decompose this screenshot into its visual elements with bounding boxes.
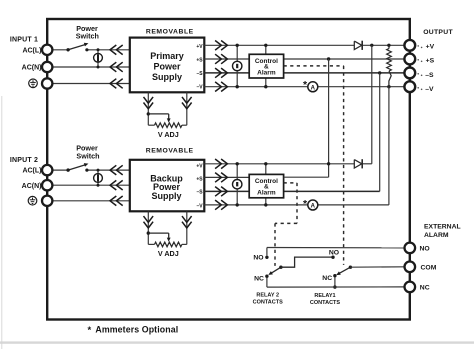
wire +S primary row <box>204 58 405 60</box>
label NC relay 2 <box>254 275 264 282</box>
svg-text:Supply: Supply <box>152 72 182 82</box>
dashed control line U4 to relay 2 <box>275 183 297 266</box>
wire switch to backup supply <box>87 169 130 171</box>
wire +V primary row <box>204 44 405 46</box>
terminal AC(L) input 2 <box>42 165 52 175</box>
connector chevrons primary +S <box>215 54 227 64</box>
svg-text:NC: NC <box>322 275 332 282</box>
indicator lamp DS1 <box>94 53 103 62</box>
svg-text:Alarm: Alarm <box>257 190 276 197</box>
label NC terminal <box>420 285 430 292</box>
label REMOVABLE primary <box>146 29 194 36</box>
svg-text:REMOVABLE: REMOVABLE <box>146 148 194 155</box>
wire V ADJ left lead primary <box>147 92 149 125</box>
svg-text:Switch: Switch <box>76 151 99 160</box>
outer enclosure border <box>47 19 410 320</box>
wire AC(N) input 1 to primary supply <box>51 66 130 68</box>
svg-text:AC(L): AC(L) <box>22 168 41 175</box>
svg-text:NC: NC <box>420 285 430 292</box>
voltmeter M1 <box>233 61 242 70</box>
label INPUT 1 <box>10 37 38 44</box>
label AC(N) input 2 <box>22 183 42 190</box>
indicator lamp DS2 branch <box>97 169 100 187</box>
control & alarm U4 box <box>249 174 283 197</box>
wire V ADJ right lead backup <box>186 211 188 244</box>
wire V ADJ right lead primary <box>186 92 188 125</box>
svg-text:V ADJ: V ADJ <box>158 249 179 258</box>
svg-text:+V: +V <box>196 44 203 50</box>
connector chevrons V ADJ primary <box>144 97 192 109</box>
label EXTERNAL ALARM <box>424 224 461 239</box>
pin label -V primary <box>196 85 203 91</box>
svg-text:–S: –S <box>196 190 203 196</box>
earth ground symbol input 2 <box>28 196 37 205</box>
label REMOVABLE backup <box>146 148 194 155</box>
diode D2 <box>354 159 362 168</box>
wire switch to primary supply <box>87 49 130 51</box>
terminal -S output <box>404 68 415 79</box>
voltmeter M2 branch <box>236 162 239 206</box>
svg-text:INPUT 2: INPUT 2 <box>10 157 38 164</box>
potentiometer VR2 <box>148 242 187 247</box>
voltmeter M1 branch <box>236 44 239 89</box>
wire -S primary row <box>204 72 405 74</box>
potentiometer VR1 wiper <box>147 112 171 122</box>
wire -S backup row <box>204 190 379 192</box>
connector chevrons primary +V <box>215 41 227 51</box>
label NC relay 1 <box>322 275 332 282</box>
label AC(L) input 2 <box>22 168 41 175</box>
power switch S1 <box>66 43 88 52</box>
svg-text:–V: –V <box>196 204 203 210</box>
connector chevrons primary -S <box>215 68 227 78</box>
relay 2 NC contact <box>265 275 268 288</box>
leader dots output -S <box>417 73 422 76</box>
label AC(N) input 1 <box>22 65 42 72</box>
wire -V backup row <box>204 204 389 206</box>
label RELAY1 CONTACTS <box>310 293 340 306</box>
relay 2 NO contact <box>265 256 268 259</box>
backup power supply U2 text <box>150 173 183 201</box>
node +V/backup join <box>370 44 373 47</box>
diode D1 <box>354 41 362 50</box>
leader dots output +S <box>417 59 422 62</box>
terminal AC(N) input 2 <box>42 180 52 190</box>
control alarm U3 branch top <box>264 44 267 55</box>
label INPUT 2 <box>10 157 38 164</box>
svg-text:–V: –V <box>196 85 203 91</box>
indicator lamp DS2 <box>94 174 103 183</box>
terminal COM external alarm <box>405 262 416 273</box>
label RELAY 2 CONTACTS <box>253 293 283 306</box>
label NO relay 1 <box>329 249 339 256</box>
connector chevrons input 1 AC(L) <box>110 45 123 55</box>
label AC(L) input 1 <box>22 47 41 54</box>
svg-text:Power: Power <box>153 62 181 72</box>
connector chevrons input 2 AC(N) <box>110 180 123 190</box>
scan artifact left gray line <box>1 96 2 349</box>
svg-text:CONTACTS: CONTACTS <box>253 300 283 306</box>
leader dots output +V <box>417 45 422 48</box>
indicator lamp DS1 branch <box>97 48 100 68</box>
svg-text:Ammeters Optional: Ammeters Optional <box>95 324 178 334</box>
terminal GND input 1 <box>42 78 52 88</box>
svg-text:–S: –S <box>196 71 203 77</box>
control & alarm U3 box <box>249 54 283 78</box>
svg-text:INPUT 1: INPUT 1 <box>10 37 38 44</box>
svg-text:V ADJ: V ADJ <box>158 130 179 139</box>
scan artifact bottom gray band <box>0 341 474 343</box>
connector chevrons backup +S <box>215 173 227 183</box>
relay 1 NO contact <box>331 256 334 259</box>
connector chevrons primary -V <box>215 82 227 92</box>
wire relay bottom rail to NC terminal <box>267 286 406 288</box>
svg-text:NO: NO <box>329 249 339 256</box>
node +S/cross join <box>327 57 330 60</box>
svg-text:+V: +V <box>196 164 203 170</box>
svg-text:A: A <box>311 204 316 210</box>
connector chevrons input 2 GND <box>110 196 123 206</box>
label Power Switch input 1 <box>76 24 99 41</box>
wire backup -S to output -S <box>379 73 381 191</box>
svg-text:CONTACTS: CONTACTS <box>310 300 340 306</box>
wire AC(L) input 1 to switch <box>51 49 68 51</box>
relay 1 NC contact <box>333 274 336 289</box>
wire AC(N) input 2 to backup supply <box>51 184 130 186</box>
wire +V backup row <box>204 163 371 165</box>
svg-text:NO: NO <box>420 246 430 253</box>
pin label -S primary <box>196 71 203 77</box>
svg-text:+S: +S <box>196 176 203 182</box>
control & alarm U4 text <box>255 178 278 196</box>
wire GND input 1 to primary supply <box>51 83 130 85</box>
svg-text:ALARM: ALARM <box>424 232 449 239</box>
terminal +V output <box>404 40 415 51</box>
control alarm U4 branch top <box>264 162 267 174</box>
primary power supply U1 box <box>130 38 205 93</box>
primary power supply U1 text <box>150 51 184 82</box>
svg-text:AC(N): AC(N) <box>22 65 42 72</box>
svg-text:Primary: Primary <box>150 51 184 61</box>
label -S output <box>425 72 434 79</box>
svg-text:–V: –V <box>425 86 434 93</box>
connector chevrons backup -V <box>215 200 227 210</box>
node -V/resistor/backup join <box>387 85 390 88</box>
backup power supply U2 box <box>130 160 205 212</box>
label NO relay 2 <box>253 254 263 261</box>
svg-text:Alarm: Alarm <box>257 69 276 76</box>
connector chevrons input 1 GND <box>110 79 123 89</box>
terminal GND input 2 <box>42 196 52 206</box>
wire AC(L) input 2 to switch <box>51 169 68 171</box>
relay 1 movable arm <box>336 266 352 276</box>
svg-text:COM: COM <box>421 264 437 271</box>
ammeter M4 <box>308 200 318 210</box>
wire relay top rail to NO terminal <box>267 248 406 256</box>
ammeter M3 asterisk <box>303 79 308 91</box>
wire relay 1 common to COM terminal <box>350 266 405 268</box>
terminal +S output <box>404 54 415 65</box>
svg-text:RELAY1: RELAY1 <box>314 293 335 299</box>
pin label +V primary <box>196 44 203 50</box>
label NO terminal <box>420 246 430 253</box>
terminal AC(L) input 1 <box>42 45 52 55</box>
wire backup +V to output +V <box>371 45 373 164</box>
power switch S2 <box>66 163 88 172</box>
label COM terminal <box>421 264 437 271</box>
svg-text:RELAY 2: RELAY 2 <box>256 293 279 299</box>
pin label -S backup <box>196 190 203 196</box>
label V ADJ primary <box>158 130 179 139</box>
pin label -V backup <box>196 204 203 210</box>
wire V ADJ left lead backup <box>147 211 149 244</box>
dashed control line U3 to relay 1 <box>284 66 344 265</box>
svg-text:A: A <box>311 85 316 91</box>
svg-text:NC: NC <box>254 275 264 282</box>
label Power Switch input 2 <box>76 144 99 161</box>
potentiometer VR2 wiper <box>147 231 171 241</box>
pin label +V backup <box>196 164 203 170</box>
control alarm U4 branch bottom <box>264 198 267 207</box>
node -S/backup join <box>378 71 381 74</box>
svg-text:+S: +S <box>426 58 435 65</box>
terminal AC(N) input 1 <box>42 62 52 72</box>
potentiometer VR1 <box>148 123 187 128</box>
wire +S backup row <box>204 176 249 178</box>
svg-text:+V: +V <box>426 43 435 50</box>
wire -V primary row <box>204 86 405 88</box>
svg-text:+S: +S <box>196 57 203 63</box>
wire GND input 2 to backup supply <box>51 200 130 202</box>
label OUTPUT <box>423 29 453 36</box>
earth ground symbol input 1 <box>29 79 38 88</box>
footnote ammeters optional <box>88 324 179 335</box>
label -V output <box>425 86 434 93</box>
resistor R1 bleeder <box>387 45 392 86</box>
svg-text:REMOVABLE: REMOVABLE <box>146 29 194 36</box>
svg-text:NO: NO <box>253 254 263 261</box>
control alarm U3 branch bottom <box>264 78 267 88</box>
pin label +S backup <box>196 176 203 182</box>
svg-text:OUTPUT: OUTPUT <box>423 29 453 36</box>
connector chevrons backup +V <box>215 159 227 169</box>
wire +S sense cross connection <box>284 59 331 177</box>
connector chevrons input 2 AC(L) <box>110 165 123 175</box>
svg-text:*: * <box>88 325 92 336</box>
voltmeter M2 <box>233 180 242 189</box>
connector chevrons backup -S <box>215 187 227 197</box>
svg-text:Switch: Switch <box>76 32 99 41</box>
connector chevrons V ADJ backup <box>144 216 192 228</box>
svg-text:AC(N): AC(N) <box>22 183 42 190</box>
label V ADJ backup <box>158 249 179 258</box>
label +S output <box>426 58 435 65</box>
pin label +S primary <box>196 57 203 63</box>
svg-text:AC(L): AC(L) <box>22 47 41 54</box>
relay 2 movable arm <box>268 266 282 275</box>
connector chevrons input 1 AC(N) <box>110 62 123 72</box>
terminal NO external alarm <box>405 243 416 254</box>
label +V output <box>426 43 435 50</box>
svg-text:–S: –S <box>425 72 434 79</box>
leader dots output -V <box>417 87 422 90</box>
svg-text:Supply: Supply <box>151 191 181 201</box>
wire relay 2 common step to relay 1 NO <box>281 257 333 267</box>
terminal NC external alarm <box>405 282 416 293</box>
ammeter M4 asterisk <box>303 198 308 210</box>
ammeter M3 <box>308 82 318 92</box>
terminal -V output <box>404 81 415 92</box>
node +V/resistor join <box>387 44 390 47</box>
svg-text:EXTERNAL: EXTERNAL <box>424 224 461 231</box>
wire backup -V to output -V <box>388 87 390 205</box>
control & alarm U3 text <box>255 58 278 76</box>
